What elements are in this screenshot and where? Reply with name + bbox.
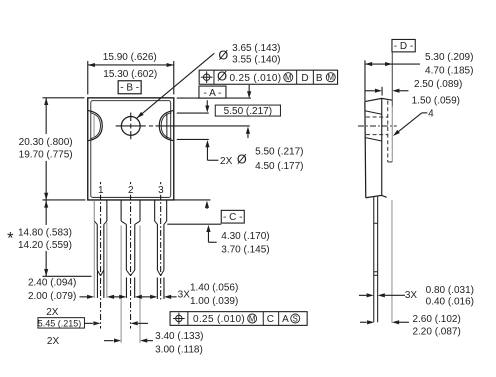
package body outer outline (front view) xyxy=(88,98,174,200)
hole leader line xyxy=(137,53,214,118)
bottom edge extension to left xyxy=(42,199,85,201)
dim 2.50 left arrow xyxy=(365,90,375,92)
dim 14.80 line upper segment xyxy=(45,200,47,225)
dim 4.30 upper arrow xyxy=(205,201,209,208)
row1 lead2 left arrow xyxy=(119,295,126,299)
lead 2 center line xyxy=(130,182,132,328)
svg-text:M: M xyxy=(328,73,335,82)
svg-text:D: D xyxy=(301,73,308,84)
notch callout arrow xyxy=(205,140,209,147)
side left extension line xyxy=(364,60,366,101)
dim 20.30 line lower segment xyxy=(45,161,47,200)
svg-text:4.30 (.170): 4.30 (.170) xyxy=(221,231,269,242)
right top extension line xyxy=(173,61,175,95)
svg-text:2.50 (.089): 2.50 (.089) xyxy=(414,79,462,90)
svg-text:3.65 (.143): 3.65 (.143) xyxy=(232,43,280,54)
lead2 wide-edge extension left xyxy=(120,225,122,342)
svg-text:3X: 3X xyxy=(405,290,418,301)
dim 2.50 right arrow xyxy=(392,89,399,93)
fcf1 leader arrow down xyxy=(248,85,250,94)
svg-text:15.90 (.626): 15.90 (.626) xyxy=(103,52,157,63)
lead 2 outline xyxy=(120,200,122,221)
dim 20.30 line upper segment xyxy=(45,98,47,134)
svg-text:5.30 (.209): 5.30 (.209) xyxy=(425,52,473,63)
datum C box xyxy=(221,210,244,223)
svg-text:3.00 (.118): 3.00 (.118) xyxy=(155,345,203,356)
fcf1 M modifier 1 xyxy=(284,73,293,82)
dim 5.45 left arrow xyxy=(84,322,93,324)
basic 5.50 down arrow xyxy=(206,100,208,108)
side hole hidden top xyxy=(366,116,388,118)
svg-text:- D -: - D - xyxy=(394,41,413,52)
row1 lead1 left arrow xyxy=(79,296,87,298)
lead2 wide-edge extension right xyxy=(139,225,141,342)
lead 1 outline xyxy=(93,200,95,221)
svg-text:Ø: Ø xyxy=(218,48,228,62)
svg-text:3.70 (.145): 3.70 (.145) xyxy=(221,244,269,255)
notch top extension line xyxy=(177,112,209,114)
dim 3.40 right arrow xyxy=(140,339,147,343)
svg-text:2.40 (.094): 2.40 (.094) xyxy=(28,277,76,288)
fcf2 divider 2 xyxy=(262,312,264,326)
lead 3 outline xyxy=(154,200,156,221)
svg-text:1.50 (.059): 1.50 (.059) xyxy=(412,96,460,107)
svg-text:1: 1 xyxy=(98,185,104,196)
dim 5.30 line xyxy=(365,63,420,65)
svg-text:- A -: - A - xyxy=(204,88,222,99)
lead1 wide-edge extension right xyxy=(106,222,108,297)
dim 2.60 right arrow xyxy=(392,320,399,324)
svg-text:2.20 (.087): 2.20 (.087) xyxy=(412,327,460,338)
lead3 narrow-edge extensions xyxy=(156,277,158,299)
svg-text:2.00 (.079): 2.00 (.079) xyxy=(28,291,76,302)
svg-text:0.40 (.016): 0.40 (.016) xyxy=(426,297,474,308)
svg-text:15.30 (.602): 15.30 (.602) xyxy=(103,69,157,80)
side lead taper tick xyxy=(374,222,378,224)
svg-text:3.40 (.133): 3.40 (.133) xyxy=(155,331,203,342)
basic 5.50 up arrow xyxy=(246,127,250,134)
dim 4.30 lower arrow xyxy=(206,225,210,232)
svg-text:C: C xyxy=(267,314,274,325)
hole vertical center line xyxy=(130,113,132,122)
lead2 narrow-edge extensions xyxy=(125,277,127,298)
svg-text:A: A xyxy=(282,314,289,325)
basic dim box 5.45 xyxy=(38,318,85,328)
fcf1 divider 2 xyxy=(296,70,298,84)
lead tip extension to left xyxy=(42,275,91,277)
package body inner outline xyxy=(91,101,171,198)
svg-text:0.25 (.010): 0.25 (.010) xyxy=(229,73,281,84)
svg-text:*: * xyxy=(7,229,14,247)
center line dash xyxy=(149,125,153,127)
feature control frame 2 box xyxy=(170,312,307,326)
top edge extension right xyxy=(177,97,251,99)
note 4 leader xyxy=(422,112,427,114)
fcf1 M modifier 2 xyxy=(326,73,335,82)
row1 lead3 left arrow xyxy=(148,296,151,298)
side body top edge xyxy=(365,98,392,101)
basic dim box 5.50 xyxy=(215,105,280,116)
svg-text:M: M xyxy=(285,73,292,82)
svg-text:Ø: Ø xyxy=(217,69,227,84)
svg-text:20.30 (.800): 20.30 (.800) xyxy=(19,137,73,148)
dim 3.40 left arrow xyxy=(104,340,114,342)
fcf2 divider 3 xyxy=(278,312,280,326)
hole horizontal center line xyxy=(116,125,146,127)
svg-text:2X: 2X xyxy=(220,156,233,167)
fcf1 divider 1 xyxy=(213,70,215,84)
side lead tip ticks xyxy=(374,271,378,273)
left top extension line xyxy=(87,61,89,95)
svg-text:4.50 (.177): 4.50 (.177) xyxy=(255,161,303,172)
side lead back face xyxy=(377,197,379,323)
side body hidden edge xyxy=(387,101,389,162)
fcf2 S modifier xyxy=(291,314,300,323)
top edge extension to left xyxy=(42,97,84,99)
fcf2 M modifier xyxy=(248,314,257,323)
svg-text:1.00 (.039): 1.00 (.039) xyxy=(190,296,238,307)
side body left edge xyxy=(364,102,367,198)
side body hidden jog xyxy=(388,161,393,163)
svg-text:B: B xyxy=(316,73,323,84)
svg-text:2X: 2X xyxy=(47,336,60,347)
lead1 narrow-edge extensions xyxy=(96,270,98,298)
dim 2.60 left arrow xyxy=(360,321,367,323)
fcf1 position symbol xyxy=(203,74,209,80)
side back extension down xyxy=(391,200,393,323)
svg-text:4: 4 xyxy=(428,108,434,119)
mounting hole xyxy=(121,117,140,136)
dim 5.45 right arrow xyxy=(131,321,138,325)
side chamfer line lower xyxy=(365,137,382,141)
fcf1 divider 3 xyxy=(312,70,314,84)
pin number 2 xyxy=(127,184,134,195)
row1 lead3 right arrow xyxy=(164,295,171,299)
row1 lead1 right arrow xyxy=(107,295,114,299)
side chamfer line upper xyxy=(365,111,382,115)
lead taper extension line xyxy=(167,223,221,225)
pin number 3 xyxy=(157,184,164,195)
fcf2 divider 1 xyxy=(187,312,189,326)
svg-text:- C -: - C - xyxy=(223,212,242,223)
left side notch arcs xyxy=(88,111,102,141)
lead1 wide-edge extension left xyxy=(93,222,95,297)
svg-text:4.70 (.185): 4.70 (.185) xyxy=(425,65,473,76)
hole center extension right xyxy=(155,125,249,127)
fcf2 position symbol xyxy=(176,315,182,321)
svg-text:5.50 (.217): 5.50 (.217) xyxy=(224,106,272,117)
left notch chord xyxy=(93,114,95,138)
side center line xyxy=(358,125,397,127)
svg-text:Ø: Ø xyxy=(237,153,247,167)
svg-text:S: S xyxy=(293,314,298,323)
row1 lead2 right arrow xyxy=(135,295,142,299)
svg-text:14.20 (.559): 14.20 (.559) xyxy=(18,240,72,251)
svg-text:14.80 (.583): 14.80 (.583) xyxy=(18,227,72,238)
datum D box xyxy=(392,39,415,51)
datum B box xyxy=(118,81,141,94)
datum A box xyxy=(199,86,226,98)
bottom edge extension right xyxy=(174,199,211,201)
svg-text:M: M xyxy=(249,314,256,323)
side right extension up xyxy=(391,52,393,107)
dim 0.80 left arrow xyxy=(359,294,367,296)
side lead front face xyxy=(373,197,375,322)
right notch chord xyxy=(166,113,168,139)
lead 1 center line xyxy=(100,182,102,328)
svg-text:1.40 (.056): 1.40 (.056) xyxy=(190,283,238,294)
side hole hidden bottom xyxy=(366,134,388,136)
dim 14.80 line lower segment xyxy=(45,251,47,276)
side body tab edge xyxy=(381,98,383,195)
svg-text:2.60 (.102): 2.60 (.102) xyxy=(412,314,460,325)
svg-text:5.50 (.217): 5.50 (.217) xyxy=(255,147,303,158)
svg-text:- B -: - B - xyxy=(120,83,139,94)
dim 0.80 right arrow xyxy=(378,293,385,297)
svg-text:2X: 2X xyxy=(46,307,59,318)
svg-text:3X: 3X xyxy=(178,289,191,300)
pin number 1 xyxy=(97,184,104,195)
side body right edge xyxy=(391,106,393,162)
svg-text:19.70 (.775): 19.70 (.775) xyxy=(19,150,73,161)
svg-text:0.25 (.010): 0.25 (.010) xyxy=(193,314,245,325)
svg-text:0.80 (.031): 0.80 (.031) xyxy=(426,285,474,296)
svg-text:3: 3 xyxy=(158,185,164,196)
dim 2.50 tick xyxy=(381,87,383,96)
svg-text:5.45 (.215): 5.45 (.215) xyxy=(38,318,82,328)
svg-text:2: 2 xyxy=(128,185,134,196)
right side notch arcs xyxy=(159,111,173,141)
side body bottom edge xyxy=(366,195,387,197)
dim 15.90 line xyxy=(88,64,174,66)
lead 3 center line xyxy=(160,182,162,299)
svg-text:3.55 (.140): 3.55 (.140) xyxy=(232,55,280,66)
notch bottom extension line xyxy=(177,138,209,140)
feature control frame 1 box xyxy=(199,70,337,84)
